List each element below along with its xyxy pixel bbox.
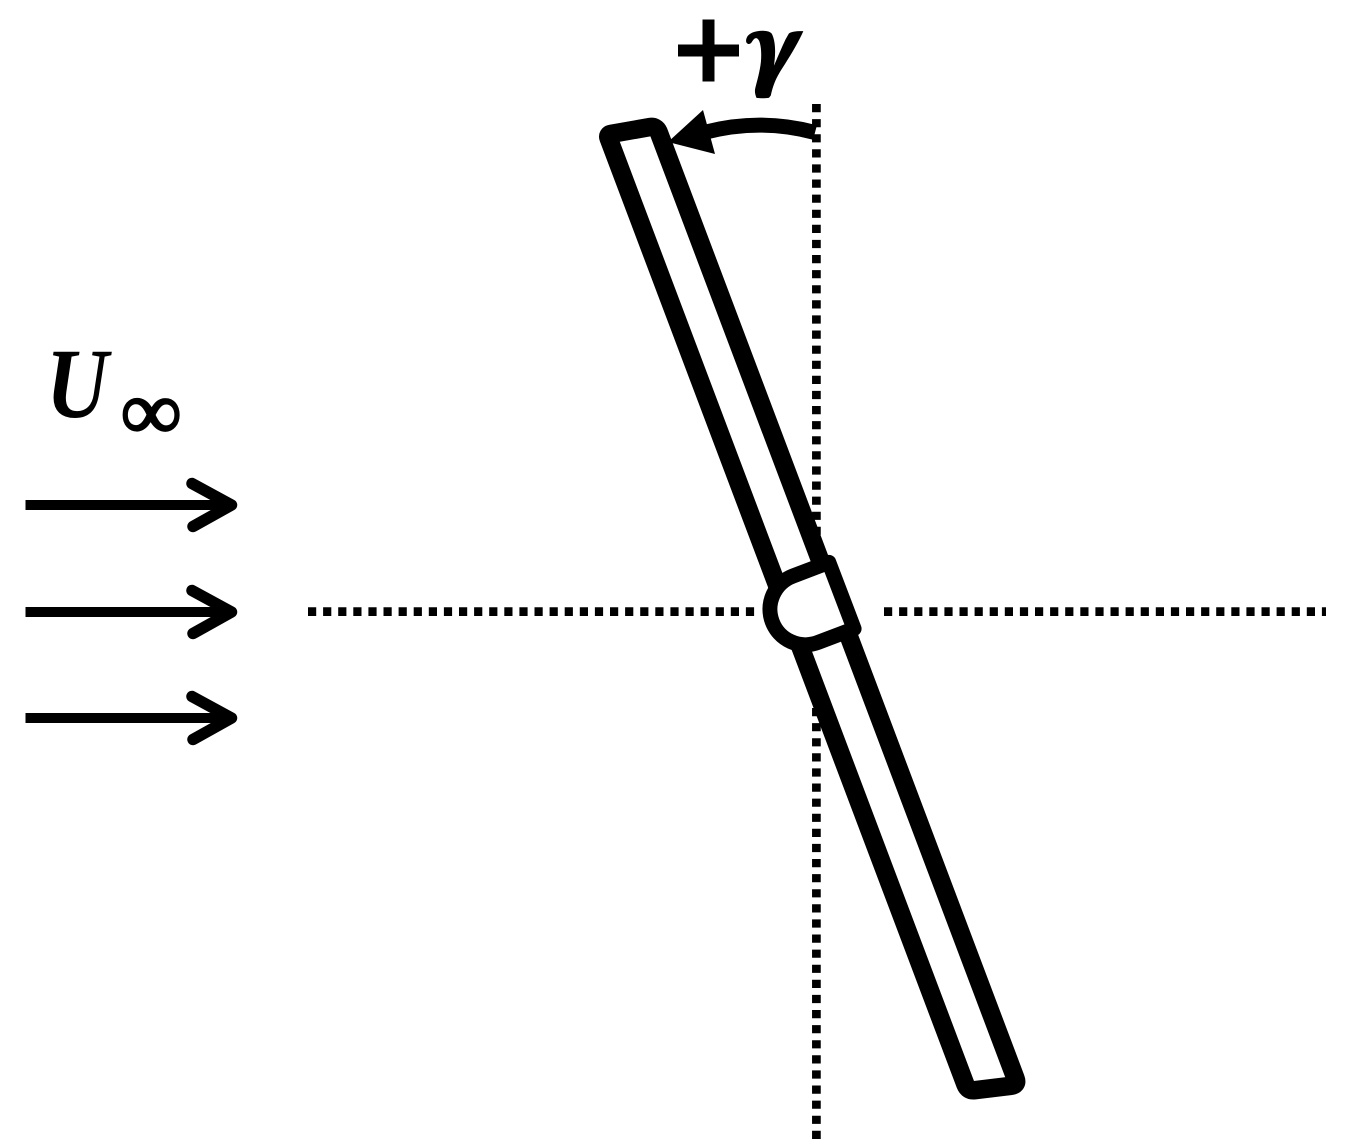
svg-text:∞: ∞ <box>121 366 181 458</box>
svg-text:U: U <box>46 329 112 439</box>
